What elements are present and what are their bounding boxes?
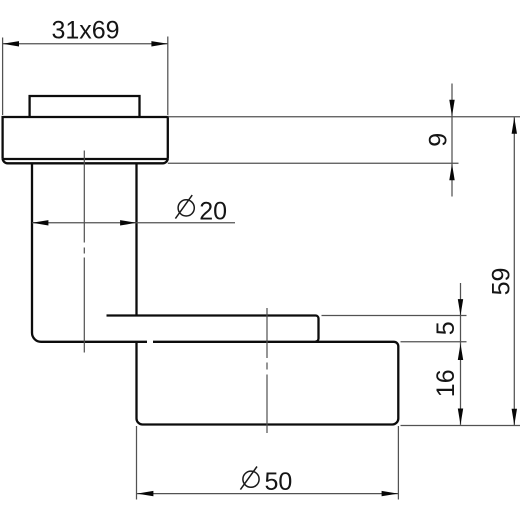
arrow Ø20 right [120, 220, 136, 225]
extension line cylinder top (for 5/16) [401, 341, 467, 343]
arrow 5 top (points down) [458, 299, 463, 315]
part outline: upper clamp plate (arm) [107, 316, 319, 342]
arrow Ø50 left [137, 491, 153, 496]
extension line cap bottom (for 9) [168, 162, 459, 164]
arrow 16 bottom (points down) [458, 409, 463, 425]
arrow Ø20 left [32, 220, 48, 225]
svg-text:50: 50 [264, 468, 292, 496]
diameter symbol of Ø20 [175, 195, 194, 219]
extension line cylinder bottom to right edge [401, 425, 520, 427]
extension line right of 31x69 [167, 37, 169, 116]
centerline of stem [83, 151, 85, 353]
extension line cap top to right edge [168, 116, 520, 118]
centerline of clamp cylinder [266, 308, 268, 433]
arrow 9 bottom (points up) [449, 164, 454, 180]
svg-text:59: 59 [487, 268, 515, 296]
dimension line 31x69 [3, 43, 168, 45]
svg-text:5: 5 [432, 321, 460, 335]
leader/dimension line Ø20 [32, 222, 235, 224]
extension line Ø50 left [136, 426, 138, 500]
dimension line Ø50 [137, 493, 399, 495]
arrow 31x69 right [151, 41, 167, 46]
extension line Ø50 right [397, 426, 399, 500]
part outline: stem (Ø20) and elbow [32, 163, 147, 341]
extension line arm top (for 5) [322, 315, 467, 317]
dimension line 59 [513, 117, 515, 425]
svg-text:9: 9 [424, 133, 452, 147]
svg-text:16: 16 [432, 369, 460, 397]
dimension line 9 [451, 84, 453, 197]
small white gap in bottom line at elbow/cylinder junction [148, 340, 153, 343]
arrow 31x69 left [3, 41, 19, 46]
part outline: wall plate (cap) [3, 117, 168, 163]
arrow 59 bottom (points down) [512, 409, 517, 425]
part outline: wall-plate top boss [30, 96, 140, 116]
extension line left of 31x69 [2, 38, 4, 116]
arrow 16 top (points up) [458, 344, 463, 360]
diameter symbol of Ø50 [240, 467, 259, 490]
svg-text:20: 20 [199, 197, 227, 225]
arrow 59 top (points up) [512, 117, 517, 133]
arrow 9 top (points down) [449, 100, 454, 116]
arrow Ø50 right [382, 491, 398, 496]
dimension line 5/16 [460, 283, 462, 425]
svg-text:31x69: 31x69 [51, 17, 119, 45]
part outline: lower clamp cylinder (Ø50) [137, 342, 399, 425]
